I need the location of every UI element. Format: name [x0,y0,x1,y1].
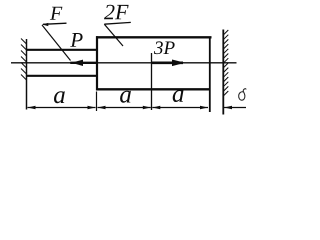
left wall line [26,39,28,110]
centerline axis [11,62,237,64]
dimension line a (segment 3) [152,107,208,109]
right edge of big bar + extension line [209,37,211,113]
label delta [239,89,246,101]
extension line below step [96,92,98,112]
label a (segment 2) [120,91,131,103]
internal section line at 3P [151,53,153,110]
label P [70,33,82,47]
label 3P [154,41,163,54]
label a (segment 3) [173,90,184,102]
label a (segment 1) [54,91,65,103]
right wall hatching [223,30,228,96]
label F [50,7,62,20]
force P arrow (points left) [70,62,96,64]
force 3P arrow (points right) [152,61,184,64]
dimension line a (segment 1) [28,107,96,109]
small bar section (area F) [27,49,98,51]
label F leader line [42,25,71,61]
label F underline arrow [43,23,67,24]
label 2F [104,5,115,20]
left wall hatching [21,39,27,81]
label 2F leader line [104,24,123,46]
dimension line a (segment 2) [98,107,151,109]
label 2F underline [104,22,131,24]
big bar section (area 2F) [96,36,212,38]
dimension delta line [224,107,246,109]
right wall line [222,30,224,115]
